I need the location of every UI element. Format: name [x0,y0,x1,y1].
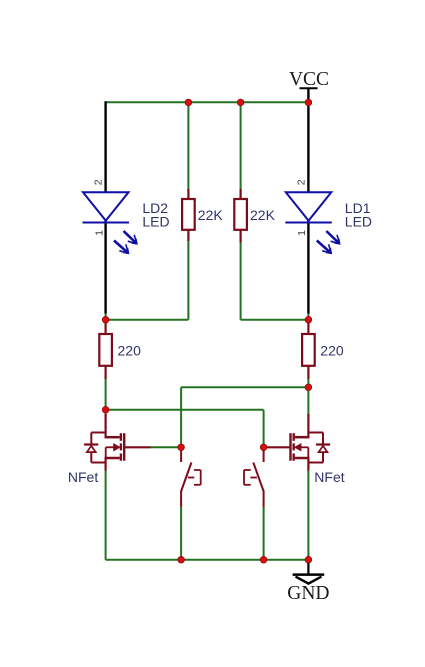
GND ground symbol [287,575,329,604]
svg-text:NFet: NFet [314,469,344,485]
wire bottom rail GND net [106,559,309,561]
junction dot top rail 22K-right [237,99,244,106]
wire 22K right bottom [240,242,242,320]
junction dot right gate node [260,444,267,451]
resistor 22K left [182,189,195,241]
LED LD2 [83,192,138,254]
junction dot bottom rail left switch [178,556,185,563]
resistor 22K right [234,189,247,243]
switch S2 right pushbutton [244,448,264,507]
transistor NFet left [84,414,150,471]
junction dot left drain node [102,407,109,414]
wire cross net A vertical (left switch up) [180,387,182,447]
resistor 220 right [302,321,315,379]
svg-text:1: 1 [296,230,308,236]
svg-text:LED: LED [345,214,372,230]
wire horizontal 22K-right bottom to right node [241,319,309,321]
junction dot left gate node [178,444,185,451]
wire right drain green below dot [307,387,309,416]
switch S1 left pushbutton [181,448,201,507]
wire right source down to bottom rail [307,470,309,560]
transistor NFet right [264,414,331,471]
wire left gate green [150,446,181,448]
wire cross net B vertical (right switch up) [263,410,265,448]
wire LD2 cathode down to node [104,221,106,314]
svg-text:22K: 22K [250,207,276,223]
VCC power symbol [289,69,329,90]
wire left vertical from rail to LD2 anode [104,101,106,192]
svg-text:220: 220 [118,342,142,358]
svg-text:NFet: NFet [68,469,98,485]
svg-text:GND: GND [287,583,329,604]
LED LD1 [285,192,340,254]
svg-text:LED: LED [142,214,169,230]
junction dot right drain node [305,384,312,391]
wire right switch bottom to rail [263,507,265,560]
wire cross net A horizontal to right drain [181,386,308,388]
junction dot top rail 22K-left [185,99,192,106]
svg-text:1: 1 [93,230,105,236]
resistor 220 left [99,321,112,379]
wire top rail VCC net [106,101,309,103]
wire 220 right bottom to drain node [307,379,309,388]
junction dot bottom rail right switch [260,556,267,563]
wire horizontal 22K-left bottom to left node [106,319,189,321]
wire GND drop [307,560,309,575]
junction dot top rail VCC [305,99,312,106]
svg-text:VCC: VCC [289,69,329,90]
wire 22K left top drop [187,102,189,190]
wire 22K left bottom [187,241,189,320]
wire right vertical VCC to LD1 anode [307,88,309,192]
svg-text:220: 220 [320,342,344,358]
svg-text:2: 2 [92,179,104,185]
svg-text:2: 2 [295,179,307,185]
junction dot bottom rail GND [305,556,312,563]
wire 22K right top drop [240,102,242,190]
junction dot right mid node [305,316,312,323]
wire 220 left bottom to gate-node [105,379,107,410]
wire LD1 cathode down to node [307,221,309,314]
svg-text:22K: 22K [198,207,224,223]
wire cross net B horizontal from left node [106,409,264,411]
junction dot left mid node [102,316,109,323]
wire left drain green below dot [105,410,107,417]
wire left source down to bottom rail [105,470,107,560]
wire left switch bottom to rail [180,507,182,560]
